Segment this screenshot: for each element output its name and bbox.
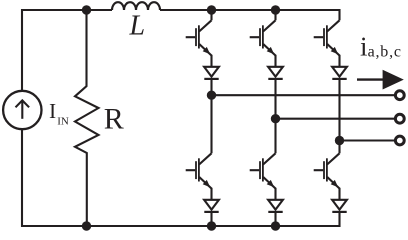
- terminal phase c: [395, 136, 404, 145]
- wire top IGBT-diode leg 1: [210, 55, 212, 67]
- wire phase a bus: [212, 94, 395, 96]
- transistor top IGBT S3: [314, 20, 340, 55]
- svg-text:IN: IN: [57, 115, 69, 127]
- wire top diode to phase bus leg 1: [210, 79, 212, 95]
- inductor L: [112, 2, 160, 10]
- transistor bottom IGBT S5: [250, 153, 276, 188]
- output current arrow: [357, 70, 404, 90]
- resistor R: [75, 10, 99, 226]
- wire top collector leg 2: [274, 10, 276, 20]
- wire bottom diode to rail leg 1: [210, 212, 212, 226]
- wire top diode to phase bus leg 2: [274, 79, 276, 119]
- svg-text:R: R: [104, 103, 124, 136]
- wire bottom IGBT-diode leg 2: [274, 188, 276, 200]
- wire phase b bus: [276, 118, 395, 120]
- transistor top IGBT S2: [250, 20, 276, 55]
- wire bottom IGBT-diode leg 3: [338, 188, 340, 200]
- wire phase c bus: [340, 139, 395, 141]
- diode top D3: [332, 67, 347, 79]
- junction top rail / resistor: [82, 5, 91, 14]
- wire top IGBT-diode leg 3: [338, 55, 340, 67]
- transistor bottom IGBT S6: [314, 153, 340, 188]
- junction bottom rail / leg 1: [207, 221, 216, 230]
- wire bottom rail: [22, 225, 340, 227]
- transistor bottom IGBT S4: [186, 153, 212, 188]
- wire top IGBT-diode leg 2: [274, 55, 276, 67]
- diode bottom D6: [332, 200, 347, 212]
- junction top rail / leg 2: [271, 5, 280, 14]
- wire bottom IGBT-diode leg 1: [210, 188, 212, 200]
- diode bottom D5: [268, 200, 283, 212]
- svg-text:a,b,c: a,b,c: [368, 44, 402, 61]
- wire phase bus to bottom IGBT leg 3: [338, 141, 340, 154]
- svg-text:I: I: [49, 99, 56, 123]
- terminal phase a: [395, 91, 404, 100]
- terminal phase b: [395, 114, 404, 123]
- svg-text:i: i: [360, 32, 368, 62]
- wire top diode to phase bus leg 3: [338, 79, 340, 141]
- diode bottom D4: [204, 200, 219, 212]
- wire left vertical lower: [21, 129, 23, 227]
- diode top D2: [268, 67, 283, 79]
- transistor top IGBT S1: [186, 20, 212, 55]
- wire bottom diode to rail leg 2: [274, 212, 276, 226]
- wire top rail left segment: [22, 10, 112, 91]
- junction phase c node: [335, 136, 344, 145]
- junction phase b node: [271, 114, 280, 123]
- current source IIN: [3, 91, 41, 129]
- wire top collector leg 1: [210, 10, 212, 20]
- junction bottom rail / resistor: [82, 221, 91, 230]
- wire top rail right segment: [160, 9, 340, 11]
- junction top rail / leg 1: [207, 5, 216, 14]
- junction phase a node: [207, 91, 216, 100]
- svg-text:L: L: [129, 11, 146, 42]
- junction bottom rail / leg 2: [271, 221, 280, 230]
- wire phase bus to bottom IGBT leg 1: [210, 95, 212, 153]
- wire top collector leg 3: [338, 9, 340, 20]
- wire phase bus to bottom IGBT leg 2: [274, 119, 276, 154]
- wire bottom diode to rail leg 3: [338, 212, 340, 227]
- diode top D1: [204, 67, 219, 79]
